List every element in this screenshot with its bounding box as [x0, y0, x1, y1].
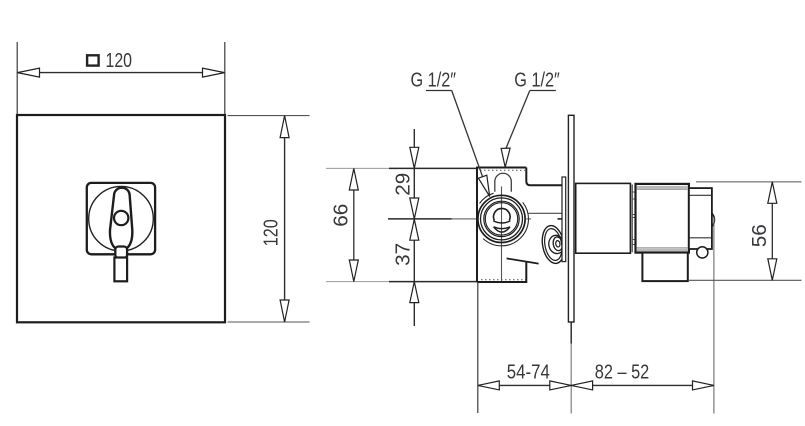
arrow left 54-74 [478, 381, 500, 390]
arrow right 82-52 [693, 381, 714, 390]
svg-text:G 1/2″: G 1/2″ [411, 69, 457, 91]
svg-text:66: 66 [331, 204, 353, 227]
valve body fill [477, 168, 526, 283]
arrow up 120v [280, 116, 289, 138]
arrow down 66 [349, 260, 358, 282]
extension line top (body top) [326, 167, 389, 169]
horizontal centerline [388, 218, 452, 220]
mounting flange behind wall [562, 177, 566, 262]
escutcheon rounded square [87, 183, 155, 254]
front cap [689, 188, 712, 249]
ext line body left down [477, 282, 479, 413]
outlet boss top line [528, 212, 562, 214]
cap inner line bottom [690, 237, 712, 239]
square symbol [87, 55, 99, 65]
svg-text:120: 120 [106, 50, 133, 72]
hidden line top [480, 169, 525, 171]
handle circle [89, 186, 154, 251]
outlet boss bottom diagonal [507, 258, 539, 263]
port outer ring [478, 195, 525, 242]
port ring 3 [484, 201, 519, 236]
cap inner line top [690, 194, 712, 196]
arrow down onto centerline [410, 198, 419, 219]
arrow left sq120 [18, 68, 40, 77]
dimension line 29-37 [413, 129, 415, 326]
leader underline left [426, 90, 452, 92]
arrow down 120v [280, 300, 289, 322]
port crescent top arc [494, 227, 510, 229]
svg-text:29: 29 [392, 173, 414, 196]
handle screw cap [114, 211, 128, 225]
wall plate square [17, 115, 225, 322]
cap tip bulge [712, 213, 715, 226]
wall extension line light [570, 344, 572, 414]
arrow down onto top edge [410, 147, 419, 168]
dimension line bottom [478, 384, 714, 386]
port ring 4 [485, 203, 517, 235]
svg-text:54-74: 54-74 [507, 362, 550, 384]
extension line right of top dim [224, 42, 226, 114]
arrow up onto bottom edge [410, 282, 419, 303]
extension line bottom (body bottom) [326, 281, 389, 283]
port inner head circle [493, 208, 510, 220]
lever arm (down) [642, 253, 687, 282]
top port U [495, 173, 512, 192]
handle top chamfer band [637, 186, 688, 189]
valve body outline [477, 168, 562, 283]
extension line bottom of right dim 120 [228, 321, 310, 323]
right extension vertical [713, 218, 715, 414]
port inner cut arc [493, 221, 510, 223]
svg-text:37: 37 [392, 243, 414, 266]
ext line 56 top [696, 181, 802, 183]
wall plate edge-on [568, 115, 574, 322]
arrow up onto centerline [410, 219, 419, 240]
knurl ticks [632, 192, 635, 245]
leader arrow right [501, 148, 510, 167]
handle top inner line [637, 188, 688, 190]
extension line top of right dim 120 [228, 115, 310, 117]
leader arrow left [478, 175, 489, 196]
handle base cylinder [636, 184, 689, 253]
handle lever body [110, 188, 132, 249]
temp knob [697, 247, 708, 258]
arrow up 66 [349, 169, 358, 191]
svg-text:120: 120 [260, 219, 282, 246]
leader line right [506, 91, 530, 149]
port crescent bottom arc [494, 227, 510, 232]
leader line left [452, 91, 483, 177]
svg-text:82 – 52: 82 – 52 [595, 362, 650, 384]
outlet port ellipses [539, 224, 567, 265]
knurl ring line [631, 185, 633, 253]
svg-text:G 1/2″: G 1/2″ [514, 69, 560, 91]
wall extension line dark [570, 322, 572, 344]
extension line left of top dim [16, 42, 18, 114]
dimension line 120 vertical [284, 116, 286, 322]
dimension line 56 [771, 182, 773, 280]
sleeve cylinder [576, 183, 631, 253]
dimension line 66 [353, 169, 355, 282]
handle neck collar [115, 247, 127, 259]
dimension line sq120 [18, 72, 225, 74]
arrow right 54-74 [550, 381, 571, 390]
port ring 2 [481, 198, 523, 240]
arrow down 56 [768, 259, 777, 281]
handle bottom chamfer band [637, 249, 688, 252]
handle bottom inner line [637, 247, 688, 249]
arrow up 56 [768, 182, 777, 203]
handle stem [114, 258, 127, 282]
ext line 56 bottom [689, 279, 802, 281]
hidden line bottom [481, 279, 526, 281]
vertical centerline [501, 187, 503, 282]
arrow left 82-52 [571, 381, 592, 390]
svg-text:56: 56 [749, 224, 771, 247]
leader underline right [530, 90, 556, 92]
port thread arc segments [480, 193, 529, 246]
arrow right sq120 [203, 68, 225, 77]
